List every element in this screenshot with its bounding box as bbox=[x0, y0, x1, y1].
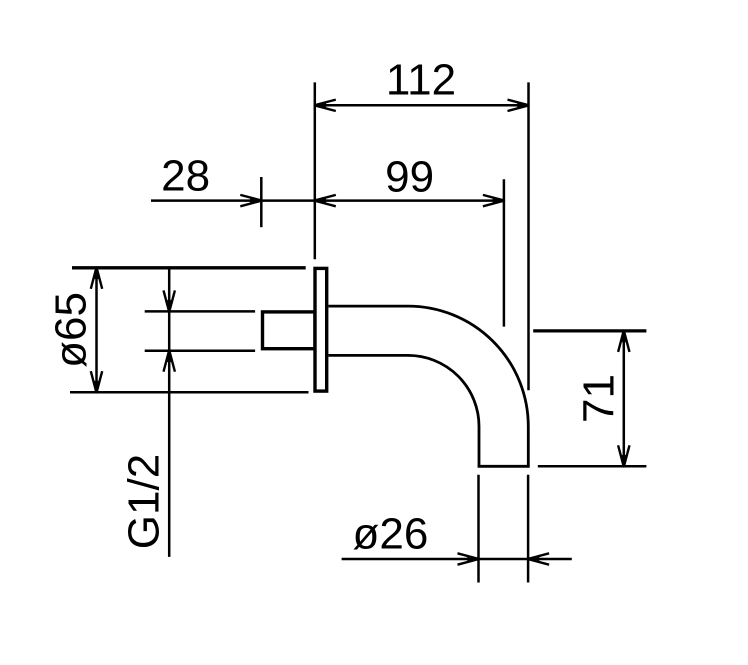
svg-text:99: 99 bbox=[385, 152, 434, 201]
svg-text:ø65: ø65 bbox=[47, 292, 96, 368]
svg-text:G1/2: G1/2 bbox=[120, 454, 169, 549]
svg-text:28: 28 bbox=[161, 151, 210, 200]
svg-text:71: 71 bbox=[574, 374, 623, 423]
svg-text:ø26: ø26 bbox=[352, 509, 428, 558]
svg-text:112: 112 bbox=[386, 56, 456, 105]
